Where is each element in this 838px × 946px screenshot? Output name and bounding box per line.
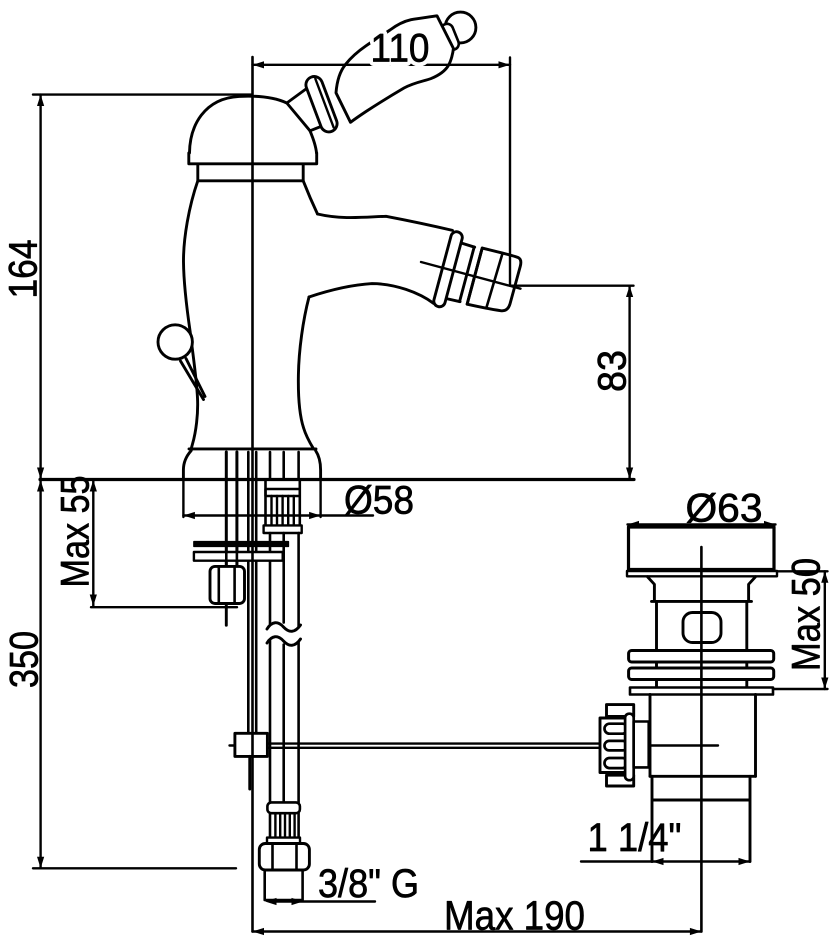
svg-text:Ø63: Ø63 [686, 487, 763, 531]
arrows 114 [652, 858, 664, 865]
supply hose tube upper [270, 533, 299, 627]
3/8 fitting threaded section [270, 813, 299, 837]
arrows max50 [821, 571, 828, 583]
rod line inside drain [650, 744, 718, 746]
drain tail pipe [652, 776, 750, 861]
pop-up knob wedge [181, 359, 206, 400]
drain flange F3 [630, 688, 773, 695]
dim o63 line [628, 523, 776, 525]
3/8 hex nut [259, 844, 309, 871]
dim max50 top ext [777, 570, 828, 572]
arrows 350 [37, 480, 44, 492]
dim o58 line [183, 514, 373, 516]
stud below nut [225, 604, 228, 626]
dim 38g leader [270, 900, 375, 902]
nut facet lines [219, 566, 235, 603]
hose break symbol [267, 623, 301, 632]
hose nut below deck [266, 489, 300, 496]
knurled nut top cap [607, 705, 634, 717]
handle socket on dome [287, 84, 326, 131]
base skirt left [183, 451, 191, 479]
pop-up knob [158, 325, 192, 359]
aerator assembly [411, 225, 530, 326]
drain upper body [657, 601, 747, 650]
3/8 fitting collar [267, 802, 300, 813]
dim max55 line [92, 480, 94, 606]
supply hose upper lines in base [270, 452, 299, 479]
aerator axis line [421, 262, 520, 289]
neck [198, 164, 303, 181]
dim 350 line [39, 480, 41, 868]
faucet centerline [251, 57, 254, 932]
svg-text:3/8" G: 3/8" G [318, 862, 419, 906]
svg-text:Ø58: Ø58 [344, 479, 414, 523]
hose nut thread hatching [272, 496, 294, 525]
drain centerline [700, 547, 703, 932]
body left edge [183, 181, 197, 449]
washer bar [194, 542, 289, 547]
dome cap arc right lower [310, 131, 317, 153]
deck line [40, 478, 634, 481]
arrows o58 [183, 512, 195, 519]
pop-up rod clamp block [230, 744, 235, 746]
dim max50 line [824, 571, 826, 689]
knurled nut outer box [600, 718, 626, 773]
svg-text:110: 110 [371, 27, 430, 71]
base skirt right [316, 451, 321, 479]
drain flange F1 [629, 651, 774, 663]
supply hose tube lower [270, 641, 299, 803]
body right edge below spout [303, 181, 317, 214]
dim o58 ext lines [183, 480, 320, 518]
knurled nut bottom cap [607, 775, 634, 786]
svg-text:Max 50: Max 50 [785, 558, 829, 671]
aerator groove lines [459, 246, 482, 304]
drain flange plate [627, 571, 777, 576]
dim 110 ext right [509, 58, 511, 286]
aerator cylinder [446, 243, 475, 302]
drain body between flanges [657, 662, 747, 668]
handle ring collar [304, 74, 340, 134]
arrows max190 [253, 928, 265, 935]
pop-up rod upper [248, 452, 256, 733]
dim max190 line [253, 930, 702, 932]
dim 350 bottom ext [33, 867, 236, 869]
aerator collar ring [433, 230, 464, 308]
arrows max55 [90, 480, 97, 492]
arrows 38g [265, 898, 277, 905]
knurled nut rim bar [625, 714, 634, 781]
dim 83 top ext [510, 285, 634, 287]
mounting stud [226, 452, 237, 566]
hose nut flange [264, 525, 302, 533]
dim max50 bottom ext [773, 688, 828, 690]
handle ball collar [438, 22, 460, 52]
svg-text:Max 55: Max 55 [54, 476, 98, 588]
pop-up rod lower stub [248, 756, 251, 789]
dim 164 line [39, 95, 41, 479]
aerator cap groove [486, 253, 502, 308]
spout bottom line [309, 284, 434, 304]
overflow window [683, 613, 721, 643]
dim 164 top ext [33, 93, 252, 95]
drain flange box [629, 527, 775, 570]
arrows 83 [626, 286, 633, 297]
drain collar [648, 577, 756, 602]
svg-text:350: 350 [3, 631, 47, 688]
spout top line [318, 214, 453, 230]
base skirt top line [189, 447, 316, 450]
3/8 fitting band [267, 838, 300, 845]
clamp plate [194, 552, 283, 561]
cap band [189, 153, 317, 164]
dim 83 line [628, 286, 630, 479]
knurled nut teeth [605, 724, 628, 734]
drain tailpiece shoulder [650, 775, 756, 778]
dim 114 line [581, 860, 750, 862]
dome cap arc left [190, 96, 287, 153]
svg-text:83: 83 [591, 350, 635, 392]
mounting nut [210, 566, 245, 603]
aerator end cap [467, 248, 522, 315]
handle ball [445, 12, 476, 43]
dim max55 bottom ext [91, 606, 237, 608]
linkage rod horizontal [267, 744, 599, 748]
arrows 110 [253, 61, 265, 68]
arrows 164 [37, 95, 44, 106]
svg-text:Max 190: Max 190 [444, 893, 585, 939]
handle lever body [336, 16, 453, 123]
drain lower body [650, 695, 756, 777]
knurl connector [634, 722, 649, 768]
dim 110 line [253, 64, 511, 66]
drain flange F2 [629, 668, 774, 680]
3/8 tail pipe [265, 870, 303, 900]
arrows o63 [628, 521, 640, 528]
svg-text:164: 164 [2, 240, 46, 299]
svg-text:1 1/4": 1 1/4" [588, 816, 682, 860]
